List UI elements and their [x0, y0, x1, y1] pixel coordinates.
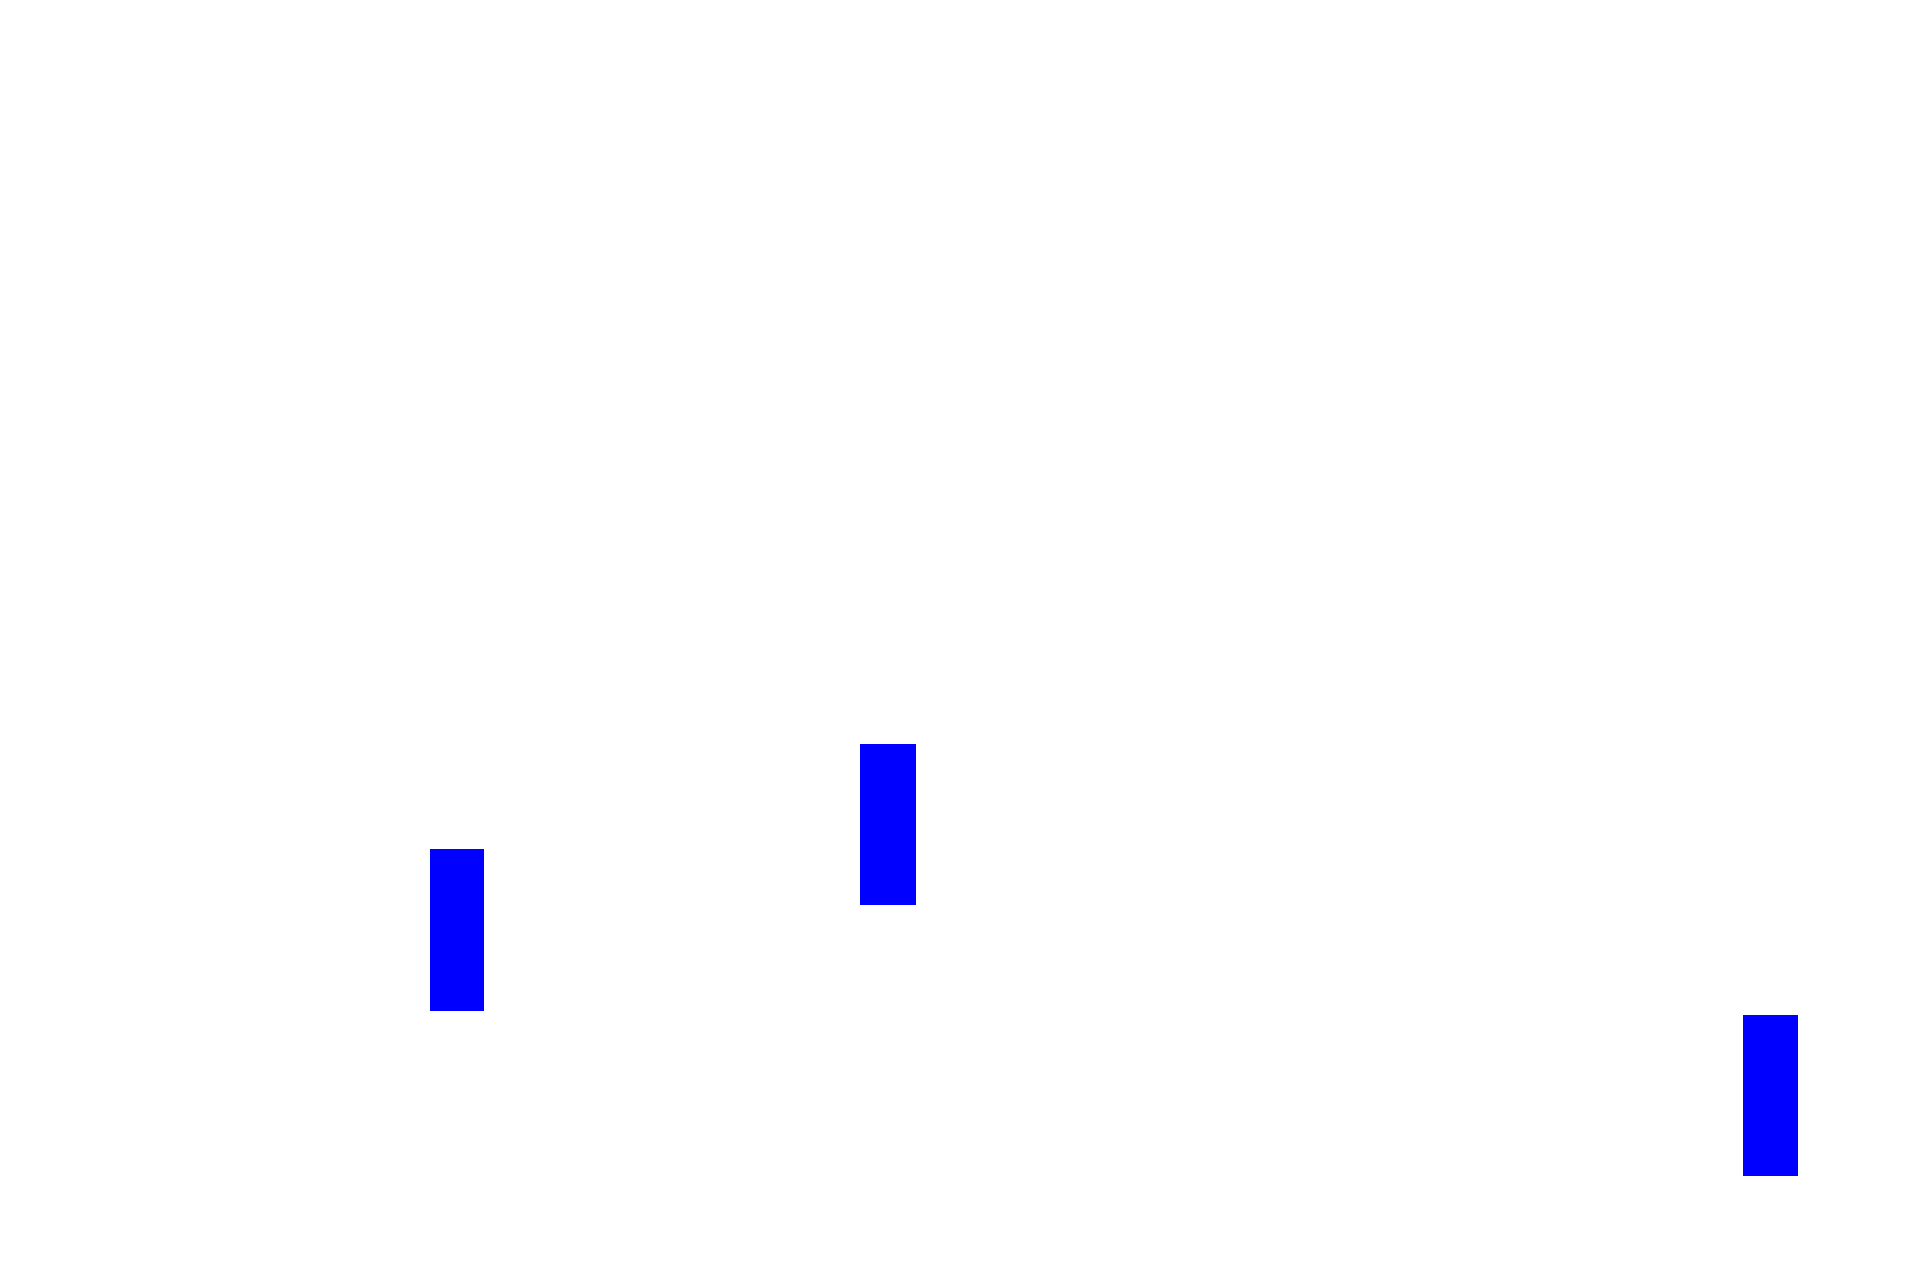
blue rectangle 3 (right): [1743, 1015, 1798, 1176]
blue rectangle 2 (center): [860, 744, 916, 905]
blue rectangle 1 (left): [430, 849, 484, 1011]
